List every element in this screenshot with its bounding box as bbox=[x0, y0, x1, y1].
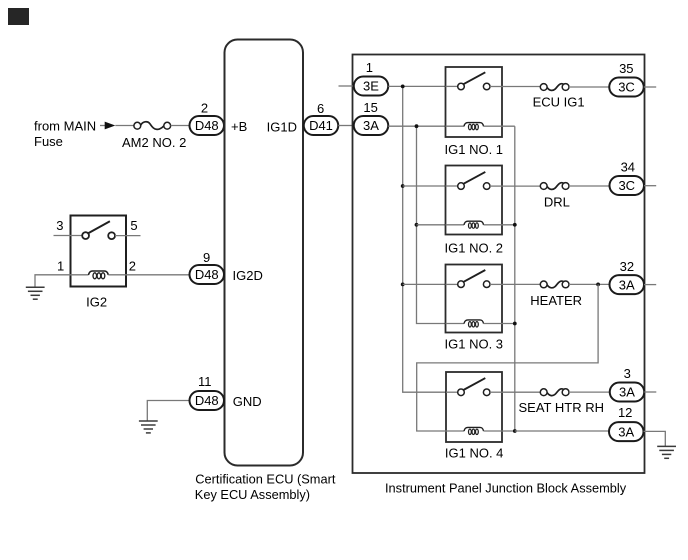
svg-text:IG1 NO. 2: IG1 NO. 2 bbox=[445, 241, 504, 256]
svg-text:32: 32 bbox=[620, 259, 634, 274]
svg-text:SEAT HTR RH: SEAT HTR RH bbox=[519, 400, 604, 415]
junction coil bus relay4 bbox=[513, 429, 517, 433]
wire 3A coil bus vertical bbox=[417, 126, 446, 323]
svg-text:3: 3 bbox=[56, 218, 63, 233]
junction coil bus relay2 bbox=[513, 223, 517, 227]
wire 3A to relay IG1 NO.1 coil bbox=[388, 125, 445, 127]
node from MAIN Fuse (source label) bbox=[34, 118, 96, 149]
svg-text:3A: 3A bbox=[619, 277, 635, 292]
svg-text:3C: 3C bbox=[618, 178, 635, 193]
wire relay3 to fuse HEATER bbox=[502, 283, 540, 285]
wire fuse AM2 to connector D48 pin 2 bbox=[171, 125, 190, 127]
relay IG2 box bbox=[71, 216, 127, 287]
connector 3E pin 1 bbox=[354, 77, 389, 96]
relay IG1 NO. 1 bbox=[446, 67, 515, 137]
op ECU box: Certification ECU bbox=[225, 40, 304, 466]
ground right bbox=[657, 446, 676, 458]
fuse AM2 NO. 2 bbox=[134, 122, 171, 130]
wire fuse ECU IG1 to 3C bbox=[569, 86, 609, 88]
connector 3C pin 34 bbox=[610, 176, 645, 195]
svg-text:3C: 3C bbox=[618, 80, 635, 95]
svg-text:11: 11 bbox=[198, 374, 212, 389]
svg-text:IG2D: IG2D bbox=[233, 268, 263, 283]
wire 3A pin 32 stub bbox=[644, 284, 656, 286]
svg-text:3A: 3A bbox=[619, 385, 635, 400]
wire IG2 pin 3 stub bbox=[54, 235, 83, 237]
fuse SEAT HTR RH bbox=[540, 389, 569, 396]
wire HEATER branch to relay4 coil bbox=[417, 284, 598, 431]
svg-text:1: 1 bbox=[57, 259, 64, 274]
svg-text:IG1 NO. 3: IG1 NO. 3 bbox=[445, 337, 504, 352]
connector D48 pin 11 bbox=[190, 391, 225, 410]
wire coil bus to 3A pin 12 bbox=[515, 430, 609, 432]
svg-text:HEATER: HEATER bbox=[530, 293, 582, 308]
wire relay2 coil feed bbox=[417, 224, 446, 226]
wire fuse DRL to 3C bbox=[569, 185, 610, 187]
svg-text:ECU IG1: ECU IG1 bbox=[533, 95, 585, 110]
wire arrow to fuse AM2 bbox=[115, 125, 134, 127]
connector D48 pin 2 bbox=[190, 116, 225, 135]
junction 3A bus relay2 bbox=[415, 223, 419, 227]
junction block: Instrument Panel Junction Block Assembly bbox=[353, 55, 645, 474]
svg-text:D41: D41 bbox=[309, 118, 333, 133]
svg-text:D48: D48 bbox=[195, 393, 219, 408]
svg-text:GND: GND bbox=[233, 394, 262, 409]
svg-text:Certification ECU (Smart: Certification ECU (Smart bbox=[195, 472, 336, 487]
arrow from MAIN Fuse bbox=[105, 122, 116, 130]
relay IG2 contact bbox=[82, 221, 115, 239]
wire fuse HEATER to 3A bbox=[569, 283, 610, 285]
wire 3C pin 35 stub bbox=[644, 86, 656, 88]
svg-text:DRL: DRL bbox=[544, 195, 570, 210]
svg-text:15: 15 bbox=[363, 100, 377, 115]
svg-text:3: 3 bbox=[624, 366, 631, 381]
wire 3A pin 3 stub bbox=[644, 391, 656, 393]
svg-text:1: 1 bbox=[366, 60, 373, 75]
connector D41 pin 6 bbox=[304, 116, 339, 135]
svg-text:D48: D48 bbox=[195, 267, 219, 282]
connector 3C pin 35 bbox=[609, 78, 644, 97]
svg-text:IG1D: IG1D bbox=[267, 119, 297, 134]
svg-text:2: 2 bbox=[201, 101, 208, 116]
wire 3E to relay IG1 NO.1 contact bbox=[388, 85, 445, 87]
svg-text:34: 34 bbox=[621, 160, 635, 175]
wire 3C pin 34 stub bbox=[644, 185, 656, 187]
wire 3E bus vertical bbox=[403, 86, 446, 392]
fuse DRL bbox=[540, 183, 569, 190]
wire IG2 pin 1 to ground bbox=[35, 275, 89, 288]
svg-text:D48: D48 bbox=[195, 118, 219, 133]
svg-text:Fuse: Fuse bbox=[34, 134, 63, 149]
wire 3E stub bbox=[339, 85, 354, 87]
wire relay2 contact feed bbox=[403, 185, 446, 187]
connector 3A pin 32 bbox=[610, 275, 645, 294]
junction 3E bus relay2 bbox=[401, 184, 405, 188]
svg-text:Instrument Panel Junction Bloc: Instrument Panel Junction Block Assembly bbox=[385, 481, 627, 496]
svg-text:35: 35 bbox=[619, 61, 633, 76]
wire GND pin to ground bbox=[147, 401, 189, 422]
svg-text:IG1 NO. 1: IG1 NO. 1 bbox=[445, 142, 504, 157]
junction coil bus relay3 bbox=[513, 322, 517, 326]
svg-text:12: 12 bbox=[618, 405, 632, 420]
wire relay3 contact feed bbox=[403, 283, 446, 285]
wire D41 to 3A bbox=[338, 125, 354, 127]
connector 3A pin 3 bbox=[610, 383, 645, 402]
svg-text:+B: +B bbox=[231, 119, 247, 134]
connector 3A pin 12 bbox=[609, 422, 644, 441]
relay IG1 NO. 4 bbox=[446, 372, 515, 442]
svg-text:3E: 3E bbox=[363, 79, 379, 94]
junction HEATER branch bbox=[596, 283, 600, 287]
corner registration mark bbox=[8, 8, 29, 25]
junction 3A bus top bbox=[415, 124, 419, 128]
connector 3A pin 15 bbox=[354, 116, 389, 135]
svg-text:2: 2 bbox=[129, 259, 136, 274]
wire relay1 to fuse ECU IG1 bbox=[502, 86, 540, 88]
wire from MAIN Fuse stub bbox=[100, 125, 105, 127]
connector D48 pin 9 bbox=[190, 265, 225, 284]
svg-text:6: 6 bbox=[317, 101, 324, 116]
svg-text:IG1 NO. 4: IG1 NO. 4 bbox=[445, 446, 504, 461]
svg-text:Key ECU Assembly): Key ECU Assembly) bbox=[195, 487, 310, 502]
svg-text:9: 9 bbox=[203, 250, 210, 265]
svg-text:IG2: IG2 bbox=[86, 295, 107, 310]
svg-text:3A: 3A bbox=[363, 118, 379, 133]
svg-text:3A: 3A bbox=[618, 424, 634, 439]
junction 3E bus top bbox=[401, 85, 405, 89]
svg-text:5: 5 bbox=[130, 218, 137, 233]
ground IG2 bbox=[26, 287, 45, 299]
wire relay4 to fuse SEAT HTR RH bbox=[502, 391, 540, 393]
relay IG1 NO. 2 bbox=[446, 166, 515, 235]
fuse HEATER bbox=[540, 281, 569, 288]
junction 3E bus relay3 bbox=[401, 283, 405, 287]
wire 3A pin 12 to ground bbox=[644, 431, 666, 446]
fuse ECU IG1 bbox=[540, 84, 569, 91]
label Certification ECU caption bbox=[195, 472, 336, 503]
relay IG2 coil bbox=[89, 271, 109, 279]
svg-text:AM2 NO. 2: AM2 NO. 2 bbox=[122, 135, 186, 150]
wire IG2 pin 5 stub bbox=[115, 235, 141, 237]
svg-text:from MAIN: from MAIN bbox=[34, 118, 96, 133]
wire IG2 pin 2 to connector D48 pin 9 bbox=[108, 274, 189, 276]
wire relay2 to fuse DRL bbox=[502, 185, 540, 187]
relay IG1 NO. 3 bbox=[446, 265, 515, 333]
ground GND bbox=[139, 421, 158, 433]
wire coil return bus vertical bbox=[514, 126, 516, 431]
wire fuse SEAT HTR RH to 3A bbox=[569, 391, 610, 393]
